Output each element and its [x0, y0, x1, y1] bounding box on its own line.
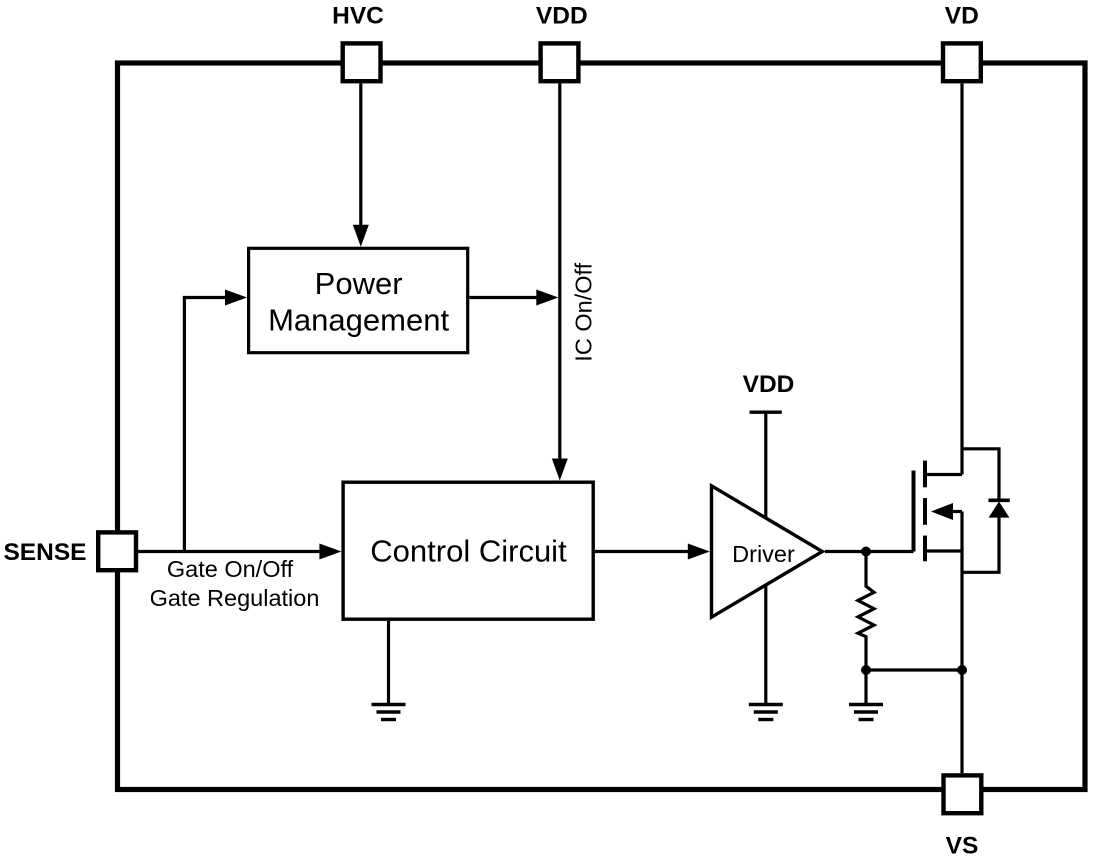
channel dash bottom — [923, 536, 927, 562]
wire Control Circuit ground stem — [387, 621, 390, 705]
svg-text:VS: VS — [946, 833, 979, 860]
channel dash top — [923, 461, 927, 488]
svg-text:Gate On/Off: Gate On/Off — [167, 556, 294, 582]
svg-text:SENSE: SENSE — [3, 539, 86, 566]
wire Power Management output to IC On/Off net — [469, 296, 537, 299]
ground (Driver) — [749, 705, 783, 720]
diode D1 body diode — [962, 449, 1010, 573]
source tap — [925, 549, 962, 552]
block Power Management — [249, 248, 468, 352]
node junction dot at driver output — [861, 547, 871, 557]
node junction dot below resistor — [861, 665, 871, 675]
body tap with arrow — [948, 510, 962, 513]
wire Control Circuit output to Driver — [595, 550, 688, 553]
resistor R (gate to ground) — [858, 552, 874, 671]
outer IC boundary border — [118, 63, 1086, 790]
pin SENSE — [98, 532, 136, 570]
svg-text:HVC: HVC — [332, 3, 384, 30]
pin HVC — [343, 43, 381, 81]
ground (Control Circuit) — [372, 705, 406, 720]
svg-text:VDD: VDD — [743, 371, 795, 398]
op-amp Driver triangle — [712, 486, 823, 617]
pin VDD — [541, 43, 579, 81]
svg-text:IC On/Off: IC On/Off — [571, 262, 597, 361]
svg-text:VDD: VDD — [536, 3, 588, 30]
svg-text:Power: Power — [315, 266, 403, 301]
gate bar — [912, 471, 916, 552]
svg-text:Gate Regulation: Gate Regulation — [150, 585, 320, 611]
svg-text:Management: Management — [268, 303, 449, 338]
pin VS — [944, 775, 982, 813]
node junction dot on source net — [957, 665, 967, 675]
wire drain up to VD pin — [960, 84, 963, 475]
svg-text:Control Circuit: Control Circuit — [370, 534, 567, 569]
transistor Q1 power MOSFET — [914, 461, 963, 562]
wire diode top branch — [962, 449, 999, 500]
wire feedback from SENSE net up into Power Management — [184, 298, 225, 552]
svg-text:VD: VD — [945, 3, 979, 30]
svg-text:Driver: Driver — [732, 541, 795, 567]
block Control Circuit — [343, 482, 593, 619]
pin VD — [943, 43, 981, 81]
wire VDD rail down through driver to ground — [764, 412, 767, 703]
wire source down to VS pin — [960, 512, 963, 774]
channel dash middle — [923, 498, 927, 525]
wire resistor bottom to source net — [866, 668, 962, 671]
ground (resistor) — [849, 705, 883, 720]
wire SENSE pin to Control Circuit — [138, 550, 320, 553]
wire VDD pin down to Control Circuit (IC On/Off) — [558, 84, 561, 460]
wire Driver output to MOSFET gate — [825, 550, 914, 553]
drain tap — [925, 473, 962, 476]
wire HVC pin down to Power Management — [359, 84, 362, 226]
wire resistor node to ground stem — [864, 670, 867, 705]
cathode bar — [989, 498, 1010, 502]
wire diode bottom branch — [962, 517, 999, 573]
anode triangle — [989, 502, 1010, 518]
